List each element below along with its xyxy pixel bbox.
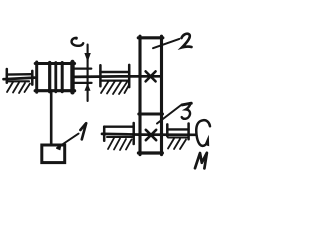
label 2 bbox=[182, 34, 192, 48]
block divider 1 bbox=[48, 63, 51, 92]
disc 3 bottom edge bbox=[139, 151, 163, 154]
shaft II left end bar bbox=[103, 127, 106, 141]
hook curl bbox=[72, 37, 84, 46]
X fix mark on shaft II in disc 3 bbox=[146, 130, 156, 140]
block right edge bbox=[70, 62, 74, 92]
bearing B left bar bbox=[99, 65, 102, 86]
label M bbox=[195, 153, 207, 169]
disc 2 / disc 3 shared edge bbox=[139, 113, 163, 116]
bearing A top line bbox=[7, 73, 33, 76]
slider square element 1 bbox=[42, 145, 65, 163]
bearing C top line bbox=[105, 125, 134, 127]
bearing A hatching bbox=[7, 81, 30, 93]
leader line 2 bbox=[153, 39, 179, 48]
shaft I right segment bbox=[75, 75, 161, 78]
block top edge bbox=[35, 62, 74, 65]
bearing D right bar bbox=[187, 124, 190, 140]
disc body left vertical bbox=[138, 36, 141, 154]
block divider 2 bbox=[54, 63, 57, 92]
bearing C right bar bbox=[132, 123, 135, 144]
rotation arrow of motor torque bbox=[196, 120, 210, 146]
clamp arrow line bbox=[87, 45, 89, 101]
disc 2 top edge bbox=[138, 36, 163, 39]
disc body right vertical bbox=[160, 36, 163, 154]
bearing B top line bbox=[100, 71, 129, 73]
label 1 bbox=[80, 123, 86, 139]
clamp arrow down head bbox=[84, 53, 90, 62]
block of roller unit on shaft I: left edge bbox=[35, 62, 38, 92]
shaft II bbox=[102, 133, 195, 137]
bearing A right bar bbox=[31, 71, 34, 85]
clamp arrow up head bbox=[85, 83, 91, 90]
bearing D top line bbox=[167, 128, 188, 130]
bearing C hatching bbox=[107, 137, 132, 150]
leader line 1 bbox=[56, 134, 78, 151]
bearing D hatching bbox=[168, 138, 187, 150]
bearing D left bar bbox=[166, 124, 169, 136]
disc flange top line bbox=[75, 67, 92, 69]
shaft I left segment bbox=[4, 78, 35, 80]
disc flange bottom line bbox=[75, 82, 92, 84]
hanger line from block to slider 1 bbox=[50, 92, 53, 144]
block divider 3 bbox=[61, 63, 64, 92]
bearing B hatching bbox=[101, 81, 129, 95]
bearing B right bar bbox=[128, 65, 131, 87]
leader line 3 bbox=[157, 106, 181, 124]
label 3 bbox=[182, 103, 192, 119]
shaft I left end bar bbox=[6, 69, 9, 83]
X fix mark on shaft I in disc 2 bbox=[146, 71, 156, 81]
block bottom edge bbox=[35, 89, 74, 92]
